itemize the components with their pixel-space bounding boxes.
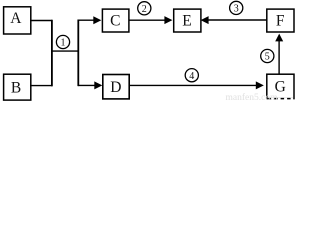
box F	[267, 9, 294, 32]
label 5 circled	[261, 49, 274, 62]
label 1 circled	[56, 35, 69, 48]
wire: vertical split to C and D	[77, 20, 79, 87]
svg-text:4: 4	[189, 71, 194, 82]
arrow D to G	[129, 81, 264, 89]
box E	[174, 9, 201, 32]
svg-text:1: 1	[61, 38, 66, 49]
svg-text:5: 5	[265, 52, 270, 63]
arrow G up to F	[275, 34, 283, 75]
wire: A stub	[30, 20, 52, 22]
wire: middle horizontal under label 1	[51, 50, 79, 52]
wire: B stub	[30, 85, 52, 87]
svg-text:E: E	[182, 13, 191, 30]
label 3 circled	[230, 1, 243, 14]
arrow F to E	[201, 16, 267, 24]
box G	[267, 74, 294, 98]
box C	[102, 9, 128, 32]
arrow into D	[78, 81, 102, 89]
arrow into C	[78, 16, 101, 24]
svg-text:2: 2	[142, 4, 147, 15]
svg-text:B: B	[11, 79, 21, 96]
box B	[4, 74, 31, 100]
label 4 circled	[185, 69, 198, 82]
label 2 circled	[138, 2, 151, 15]
box D	[103, 75, 129, 99]
box A	[4, 7, 31, 34]
svg-text:C: C	[110, 13, 120, 30]
svg-text:3: 3	[234, 4, 239, 15]
svg-text:F: F	[276, 13, 285, 30]
wire: vertical join of A and B	[51, 20, 53, 87]
arrow C to E	[129, 16, 173, 24]
svg-text:D: D	[110, 79, 121, 96]
svg-text:A: A	[10, 10, 22, 27]
svg-text:manfen5.com: manfen5.com	[226, 92, 279, 101]
